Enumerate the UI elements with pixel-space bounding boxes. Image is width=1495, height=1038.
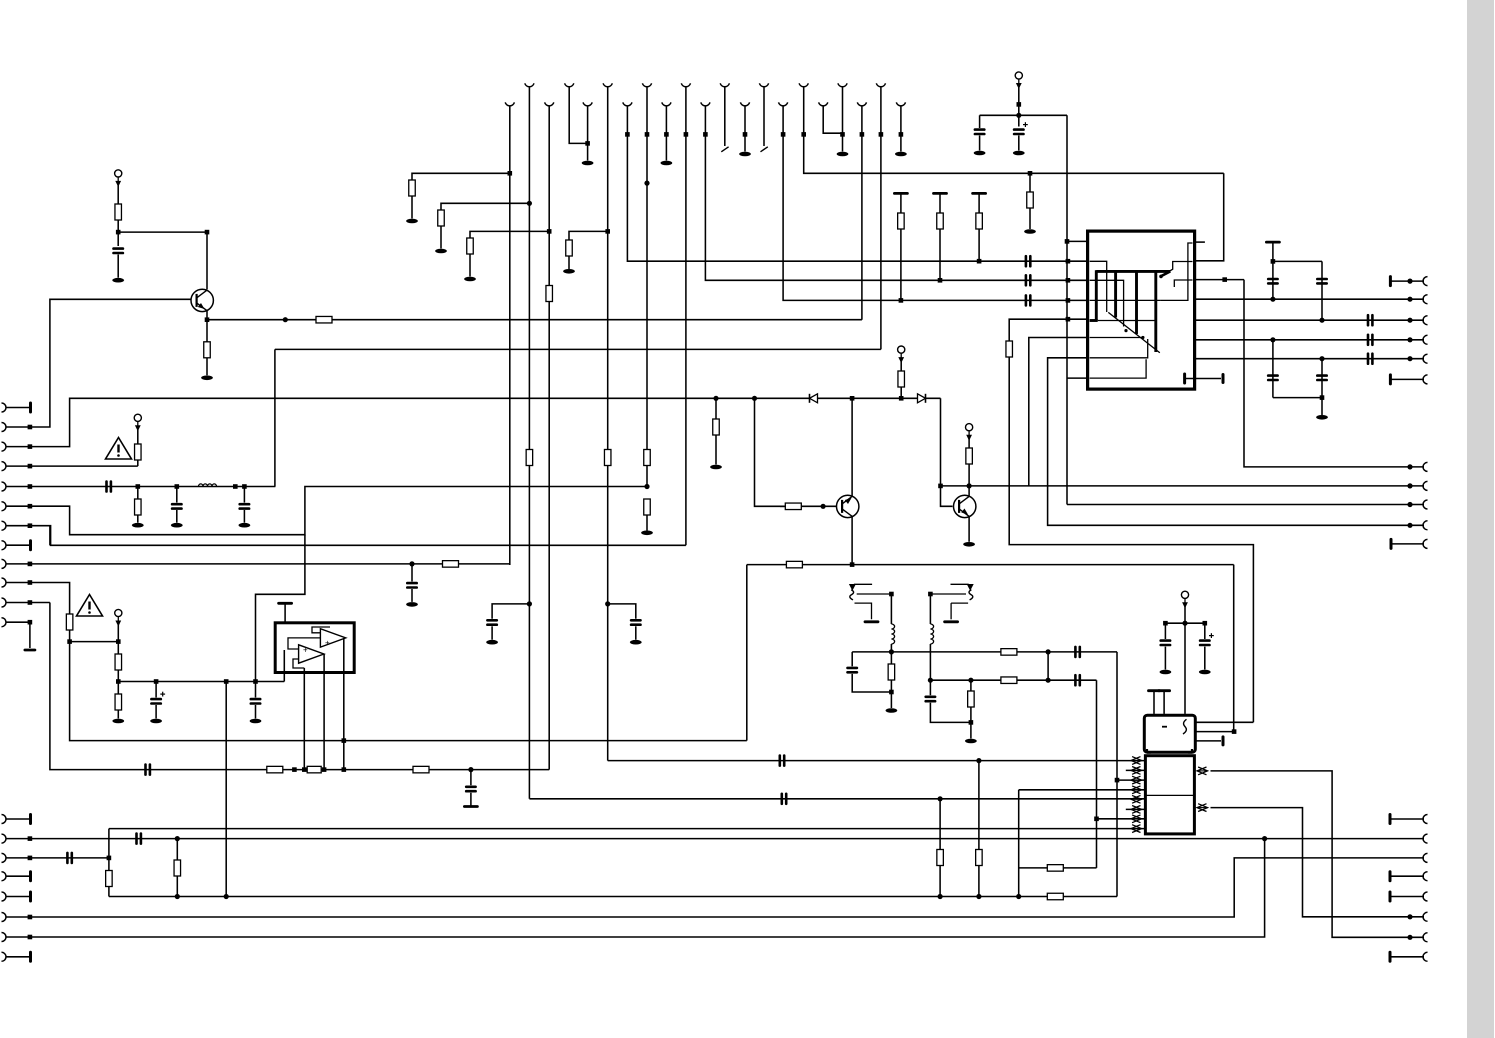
wire up x=1028.8 to IC1 pin y=337.5 bbox=[1029, 338, 1089, 486]
junction bbox=[224, 679, 229, 684]
ground bbox=[582, 161, 594, 166]
wire bbox=[469, 254, 471, 277]
capacitor C inline y=300.4 bbox=[1026, 295, 1030, 305]
wire down x=1244 then right to connector bbox=[1244, 280, 1424, 467]
power terminal VCC5 bbox=[966, 424, 973, 431]
junction bbox=[527, 201, 532, 206]
wire bbox=[491, 626, 493, 639]
unit A squiggle bbox=[1183, 719, 1187, 734]
stub end bar bbox=[1222, 737, 1225, 745]
wire right bbox=[1273, 397, 1322, 399]
junction bbox=[605, 229, 610, 234]
ground bbox=[1199, 670, 1211, 675]
IC1 right stub pin y=242 bbox=[1195, 241, 1205, 243]
wire from P7 to ground bbox=[744, 106, 746, 152]
junction bbox=[1203, 621, 1208, 626]
ground bbox=[965, 739, 977, 744]
op-amp internal wiring bbox=[288, 627, 330, 668]
junction T1 out bbox=[889, 592, 894, 597]
resistor R x=978.9 bbox=[976, 850, 983, 866]
junction bbox=[1407, 483, 1412, 488]
IC1 internal switch contacts bbox=[1090, 243, 1193, 378]
branch to capacitor x=492.1 bbox=[492, 604, 529, 619]
junction bbox=[1046, 678, 1051, 683]
wire bbox=[117, 220, 119, 246]
warning symbol W2 bbox=[77, 595, 103, 617]
junction bbox=[1066, 259, 1071, 264]
junction bbox=[508, 171, 513, 176]
stub into unit A bbox=[1153, 691, 1155, 714]
wire bbox=[929, 644, 931, 680]
wire down to unit A bbox=[1184, 606, 1186, 714]
connector pin BL5 (bottom-left column) bbox=[2, 892, 7, 901]
line y=680.2 bbox=[930, 679, 1096, 681]
connector pin P4 (top row lower) bbox=[623, 102, 632, 105]
junction bbox=[977, 259, 982, 264]
resistor R x=69.6 bbox=[66, 614, 73, 630]
wire down bbox=[206, 320, 208, 342]
connector pin P13 (top row upper) bbox=[565, 83, 574, 86]
junction bbox=[322, 767, 327, 772]
line y=173.3 left segment bbox=[412, 173, 510, 180]
IC1 pin y=279.6 bbox=[1195, 279, 1244, 281]
resistor R x=969.1 bbox=[966, 448, 973, 464]
capacitor C x=118.2 bbox=[114, 249, 123, 253]
pin bar BL4 bbox=[29, 872, 32, 881]
pin marker on wire x=745.0 bbox=[743, 132, 748, 137]
terminal bar x=1272.9 bbox=[1266, 241, 1279, 244]
vertical x=978.9 bbox=[978, 761, 980, 897]
wire from P18, open end bbox=[763, 87, 765, 147]
resistor R inline y=564.6 bbox=[786, 561, 802, 568]
wire down from y=339.8 bbox=[1272, 340, 1274, 398]
stub end bar bbox=[1222, 375, 1225, 383]
electrolytic capacitor C+ x=1204.8 bbox=[1200, 641, 1209, 645]
junction bbox=[175, 894, 180, 899]
wire down bbox=[1164, 623, 1166, 639]
capacitor C x=852.2 bbox=[848, 668, 857, 672]
capacitor C inline y=320.2 bbox=[1368, 315, 1372, 325]
line y=896.5 bbox=[109, 896, 1117, 898]
op-amp out wire x=304.3 bbox=[303, 668, 305, 770]
connector pin P12 (top row upper) bbox=[525, 83, 534, 86]
bus y=838.6 full width bbox=[30, 838, 1424, 840]
junction bbox=[1407, 464, 1412, 469]
connector pin P9 (top row lower) bbox=[819, 102, 828, 105]
capacitor C inline y=486.5 bbox=[107, 482, 111, 492]
junction Q2 emitter bbox=[850, 562, 855, 567]
wire right branch to power rail bbox=[1019, 114, 1067, 116]
junction bbox=[1407, 297, 1412, 302]
vertical x=1117 bbox=[1116, 652, 1118, 897]
wire L11 to vertical bbox=[30, 602, 50, 604]
junction bbox=[889, 649, 894, 654]
Q1 emitter wire bbox=[206, 311, 208, 320]
bus y=563.9 left part bbox=[30, 563, 510, 565]
wire to row bbox=[137, 460, 139, 466]
pin bar L8 bbox=[29, 541, 32, 550]
wire down bbox=[929, 680, 931, 695]
connector pin right-bottom bbox=[1423, 912, 1428, 921]
unit B left pin arrows y=770.4 bbox=[1131, 767, 1142, 775]
wire from P3 down to ground bbox=[587, 106, 589, 161]
junction L12 bbox=[28, 620, 33, 625]
capacitor C inline y=280.3 bbox=[1026, 275, 1030, 285]
capacitor C x=1272.9 low bbox=[1268, 376, 1277, 380]
junction bbox=[1407, 356, 1412, 361]
wire L6 staircase to line y=486.5 right segment bbox=[30, 487, 647, 535]
junction L4 bbox=[28, 464, 33, 469]
resistor R x=1030 bbox=[1027, 192, 1034, 208]
connector pin right-mid R4 bbox=[1423, 521, 1428, 530]
junction bbox=[342, 738, 347, 743]
junction BL7 bbox=[28, 935, 33, 940]
wire down from y=358.7 bbox=[1321, 359, 1323, 415]
unit B right pin arrow y=807.6 bbox=[1197, 804, 1208, 812]
line y=760.6 to unit B bbox=[608, 760, 1146, 762]
wire down bbox=[137, 429, 139, 445]
junction bbox=[242, 484, 247, 489]
capacitor C inline y=838.6 bbox=[137, 834, 141, 844]
resistor inline x=529.4 bbox=[526, 450, 533, 466]
wire from P5 to ground bbox=[665, 106, 667, 161]
transistor Q1 bbox=[191, 289, 213, 311]
wire continues to corner y=769.6 bbox=[548, 302, 550, 770]
connector pin P11 (top row lower) bbox=[896, 102, 905, 105]
junction bbox=[205, 230, 210, 235]
wire bbox=[243, 510, 245, 523]
line y=231.4 bbox=[470, 231, 549, 238]
capacitor C x=930.4 bbox=[926, 697, 935, 701]
wire from P2 down bbox=[548, 106, 550, 286]
wire from P4 down then right into IC1 pin bbox=[627, 106, 1088, 262]
pin marker on wire x=880.9 bbox=[879, 132, 884, 137]
junction bbox=[1407, 935, 1412, 940]
wire from line y=398.7 down to Q2 base bbox=[755, 398, 787, 506]
junction bbox=[976, 758, 981, 763]
junction bbox=[1115, 778, 1120, 783]
resistor R inline y=769.6 bbox=[267, 766, 283, 773]
inductor L x=930.4 bbox=[930, 624, 933, 644]
line y=485.9 to right connector bbox=[941, 485, 1425, 487]
tuned filter T1 bbox=[850, 584, 892, 619]
wire bbox=[176, 487, 178, 503]
wire down bbox=[1018, 87, 1020, 127]
terminal bar bbox=[1149, 689, 1160, 692]
resistor R x=118.2 bbox=[115, 204, 122, 220]
transistor Q3 bbox=[954, 495, 976, 517]
wire down bbox=[1272, 242, 1274, 297]
connector pin right-mid R2 bbox=[1423, 481, 1428, 490]
line y=203.3 bbox=[441, 203, 529, 210]
wire bbox=[1410, 504, 1424, 506]
pin bar right y=876 bbox=[1389, 872, 1392, 881]
unit A (motor/head) box bbox=[1144, 715, 1195, 752]
wire bbox=[890, 594, 892, 624]
junction bbox=[938, 894, 943, 899]
junction BL3 bbox=[28, 856, 33, 861]
ground bbox=[112, 719, 124, 724]
resistor R inline y=769.6 #2 bbox=[307, 766, 321, 773]
wire bbox=[1390, 875, 1424, 877]
connector pin right-bottom row 957 bbox=[1423, 952, 1428, 961]
stub pin y=770.4 bbox=[1126, 769, 1146, 771]
connector pin L9 (left column) bbox=[2, 559, 7, 568]
Q2 base wire bbox=[780, 505, 837, 507]
T1 arrow bbox=[849, 584, 856, 591]
pin bar inside IC1 bbox=[1183, 374, 1186, 383]
wire to connector bbox=[1390, 378, 1424, 380]
line y=486.5 left segment bbox=[30, 486, 276, 488]
junction bbox=[116, 230, 121, 235]
junction bbox=[1046, 649, 1051, 654]
wire bbox=[1390, 956, 1424, 958]
wire down bbox=[155, 682, 157, 698]
wire down then line y=544.6 then down to unit A bbox=[1009, 357, 1253, 722]
IC1 pin y=358.7 to connector bbox=[1195, 358, 1424, 360]
connector pin right-top R3 bbox=[1423, 316, 1428, 325]
connector pin P16 (top row upper) bbox=[681, 83, 690, 86]
junction BL6 bbox=[28, 915, 33, 920]
junction L10 bbox=[28, 580, 33, 585]
terminal bar bbox=[1159, 689, 1170, 692]
resistor R x=900.9 bbox=[898, 213, 905, 229]
connector pin L6 (left column) bbox=[2, 502, 7, 511]
junction bbox=[233, 484, 238, 489]
wire down bbox=[715, 398, 717, 419]
ground bbox=[464, 277, 476, 282]
resistor R x=901.2 bbox=[898, 371, 905, 387]
wire bbox=[206, 358, 208, 376]
unit A pin y=722.3 bbox=[1195, 721, 1253, 723]
wire bbox=[155, 705, 157, 719]
wire bbox=[255, 705, 257, 719]
IC1 contact dot bbox=[1141, 336, 1144, 339]
wire down x=940.5 to Q3 base bbox=[941, 398, 953, 506]
junction bbox=[409, 561, 414, 566]
junction bbox=[1319, 318, 1324, 323]
line y=867.9 bbox=[1019, 867, 1097, 869]
wire down x=852.2 bbox=[851, 652, 853, 666]
connector pin L12 (left column) bbox=[2, 618, 7, 627]
resistor to ground bbox=[644, 499, 651, 515]
wire from P8 down then right into IC1 pin bbox=[783, 106, 1088, 301]
IC1 contact dot bbox=[1124, 329, 1127, 332]
connector pin L11 (left column) bbox=[2, 598, 7, 607]
wire from P6 down then right into IC1 pin bbox=[705, 106, 1088, 281]
capacitor C inline y=857.9 bbox=[67, 853, 71, 863]
capacitor C x=244.4 bbox=[240, 504, 249, 508]
terminal bar x=940.0 bbox=[934, 192, 947, 195]
junction bbox=[1066, 278, 1071, 283]
wire bbox=[411, 196, 413, 219]
junction bbox=[154, 679, 159, 684]
resistor R inline y=651.9 bbox=[1001, 649, 1017, 656]
wire from P17, open end bbox=[724, 87, 726, 147]
page edge shadow bar bbox=[1467, 0, 1494, 1038]
wire right bbox=[1273, 260, 1322, 262]
IC1 pin y=339.8 to connector bbox=[1195, 339, 1424, 341]
vertical x=1048.1 bbox=[1047, 652, 1049, 680]
ground bbox=[201, 376, 213, 381]
connector pin L10 (left column) bbox=[2, 578, 7, 587]
IC1 pin y=241.4 bbox=[1067, 240, 1088, 242]
connector pin L7 (left column) bbox=[2, 521, 7, 530]
wire bbox=[440, 226, 442, 249]
junction bbox=[116, 679, 121, 684]
power terminal VCC7 bbox=[115, 609, 122, 616]
op-amp A1 triangle bbox=[299, 645, 324, 663]
connector pin L4 (left column) bbox=[2, 462, 7, 471]
resistor R x=177.3 bbox=[174, 860, 181, 876]
power terminal VCC6 bbox=[1181, 591, 1188, 598]
ground bbox=[837, 152, 849, 157]
junction bbox=[1407, 502, 1412, 507]
pin marker on wire x=685.9 bbox=[684, 132, 689, 137]
connector pin right-top R6 bbox=[1423, 375, 1428, 384]
junction bbox=[107, 856, 112, 861]
capacitor C inline y=358.7 bbox=[1368, 354, 1372, 364]
line y=789.8 to unit B bbox=[1019, 789, 1146, 791]
junction bbox=[136, 484, 141, 489]
connector pin P15 (top row upper) bbox=[642, 83, 651, 86]
wire from P21 down to line y=349.4 bbox=[880, 87, 882, 350]
wire from P13 to x=587.6 bbox=[569, 87, 587, 144]
wire bbox=[979, 136, 981, 151]
unit A minus mark bbox=[1162, 726, 1167, 728]
wire L2 up to Q1 base bbox=[30, 299, 191, 427]
connector pin BL2 (bottom-left column) bbox=[2, 834, 7, 843]
ground bbox=[435, 249, 447, 254]
pin bar L1 bbox=[29, 403, 32, 412]
resistor R inline y=563.9 bbox=[443, 561, 459, 568]
wire L7 down then line y=545.3 bbox=[30, 526, 686, 546]
unit A stub y=740.9 bbox=[1195, 740, 1221, 742]
connector pin BL8 (bottom-left column) bbox=[2, 952, 7, 961]
wire bbox=[715, 435, 717, 465]
terminal bar x=979.1 bbox=[973, 192, 986, 195]
IC1 wiper contact dot bbox=[1159, 275, 1163, 279]
unit B left pin arrows y=780.1 bbox=[1131, 776, 1142, 784]
no-connect slash bbox=[721, 147, 728, 152]
wire bbox=[1029, 208, 1031, 229]
resistor R inline Q2 base bbox=[785, 503, 801, 510]
junction bbox=[1262, 836, 1267, 841]
wire bbox=[890, 680, 892, 708]
T1 ground bar bbox=[865, 620, 878, 623]
vertical x=108.9 bbox=[108, 829, 110, 897]
wire L10 down x=69.6 then line y=740.6 bbox=[30, 583, 747, 741]
pin bar y=543.9 bbox=[1390, 539, 1393, 548]
capacitor C inline y=680.2 bbox=[1075, 675, 1079, 685]
node bbox=[1016, 113, 1021, 118]
junction bbox=[889, 690, 894, 695]
ground bbox=[641, 531, 653, 536]
IC1 pin y=319.2 west then down x=1009.2 bbox=[1009, 319, 1088, 341]
wire from P10 down to emitter line bbox=[861, 106, 863, 320]
Q1 collector wire bbox=[206, 232, 208, 289]
connector pin BL6 (bottom-left column) bbox=[2, 913, 7, 922]
connector pin right-bottom row 896 bbox=[1423, 892, 1428, 901]
junction bbox=[585, 141, 590, 146]
pin marker on wire x=627.4 bbox=[625, 132, 630, 137]
resistor R x=137.8 low bbox=[135, 499, 142, 515]
svg-text:+: + bbox=[303, 646, 308, 655]
wire from y=534.7 net down to op-amp rail bbox=[256, 535, 305, 682]
junction bbox=[1094, 817, 1099, 822]
connector pin P10 (top row lower) bbox=[857, 102, 866, 105]
junction Q2 collector node bbox=[850, 396, 855, 401]
terminal bar bbox=[279, 602, 292, 605]
wire bbox=[1390, 818, 1424, 820]
connector pin P18 (top row upper) bbox=[759, 83, 768, 86]
stub pin y=809.4 bbox=[1126, 808, 1146, 810]
power rail vertical x=1067 bbox=[1066, 115, 1068, 504]
cap branch down bbox=[411, 564, 413, 582]
Q2 collector vertical bbox=[851, 398, 853, 496]
connector pin right-bottom row 819 bbox=[1423, 815, 1428, 824]
wire to unit B pin bbox=[1097, 818, 1146, 820]
capacitor C x=979.6 bbox=[975, 130, 984, 134]
IC1 pin y=260.8 loop to line y=173.3 bbox=[1195, 173, 1224, 260]
transistor Q2 bbox=[837, 495, 859, 517]
connector pin P8 (top row lower) bbox=[779, 102, 788, 105]
junction bbox=[928, 678, 933, 683]
wire bbox=[890, 652, 892, 664]
pin bar y=379.4 bbox=[1389, 375, 1392, 384]
connector pin right-top R2 bbox=[1423, 295, 1428, 304]
vertical x=49.9 mid segment bbox=[49, 526, 51, 546]
op-amp out wire x=343.8 bbox=[343, 638, 345, 770]
capacitor C x=176.8 bbox=[172, 504, 181, 508]
wire bbox=[1390, 896, 1424, 898]
ground bbox=[239, 523, 251, 528]
IC1 pin y=378.1 bbox=[1067, 377, 1088, 379]
junction bbox=[302, 767, 307, 772]
wire down bbox=[1204, 623, 1206, 639]
wire down bbox=[470, 770, 472, 786]
unit B left pin arrows y=789.8 bbox=[1131, 786, 1142, 794]
junction L2 bbox=[28, 425, 33, 430]
junction bbox=[938, 278, 943, 283]
junction bbox=[976, 894, 981, 899]
wire to connector bbox=[1391, 543, 1424, 545]
junction bbox=[1066, 317, 1071, 322]
wire bbox=[117, 255, 119, 278]
capacitor C inline y=339.8 bbox=[1368, 335, 1372, 345]
wire to x=891.4 bbox=[852, 674, 891, 692]
unit B left pin arrows y=809.4 bbox=[1131, 806, 1142, 814]
connector pin P2 (top row lower) bbox=[545, 102, 554, 105]
connector pin P19 (top row upper) bbox=[799, 83, 808, 86]
terminal bar bbox=[464, 805, 477, 808]
wire down x=1233.7 to unit A bbox=[1233, 565, 1235, 732]
pin marker on wire x=842.5 bbox=[840, 132, 845, 137]
capacitor C inline y=798.8 bbox=[782, 794, 786, 804]
power terminal VCC1 bbox=[1015, 72, 1022, 79]
connector pin P17 (top row upper) bbox=[720, 83, 729, 86]
wire bbox=[646, 515, 648, 531]
resistor R x=940.1 bbox=[937, 850, 944, 866]
resistor R x=118.3 bbox=[115, 654, 122, 670]
wire bbox=[1164, 647, 1166, 670]
junction L6 bbox=[28, 504, 33, 509]
wire right bbox=[118, 231, 207, 233]
branch to capacitor x=635.8 bbox=[608, 604, 636, 619]
wire to connector bbox=[1390, 280, 1424, 282]
node bbox=[1182, 621, 1187, 626]
junction bbox=[938, 484, 943, 489]
